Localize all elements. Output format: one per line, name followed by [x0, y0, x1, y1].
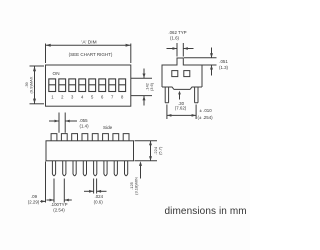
svg-text:1: 1 — [51, 95, 54, 100]
dimension .125 MIN arrow (pin length) — [139, 161, 142, 178]
dimension .100TYP extension lines (pin1 pin2) — [54, 179, 64, 203]
dimension .055 extension lines — [59, 113, 65, 133]
pin 4 — [83, 161, 86, 176]
actuator bump 7 — [113, 134, 119, 141]
pin 3 — [73, 161, 76, 176]
svg-text:.39(9.9)MAX: .39(9.9)MAX — [24, 76, 33, 93]
dimension .055 arrows — [49, 120, 77, 123]
switch position S3 — [69, 79, 76, 92]
end view hole left — [172, 71, 178, 77]
switch position S5 — [89, 79, 96, 92]
dimension .024 arrows — [84, 190, 107, 193]
svg-text:(2.54): (2.54) — [53, 207, 65, 212]
svg-text:5: 5 — [91, 95, 94, 100]
dimension A line — [46, 44, 131, 47]
svg-text:8: 8 — [121, 95, 124, 100]
pin 1 — [52, 161, 55, 176]
svg-text:.062 TYP: .062 TYP — [168, 30, 186, 35]
dimension .090 arrow — [40, 200, 45, 203]
svg-text:ON: ON — [53, 71, 60, 76]
svg-text:(0.6): (0.6) — [94, 200, 104, 205]
actuator bump 8 — [123, 134, 129, 141]
svg-text:3: 3 — [71, 95, 74, 100]
svg-text:4: 4 — [81, 95, 84, 100]
dimension .051 extension lines (tab height) — [184, 58, 217, 65]
dimension .062TYP extension lines (tab width) — [177, 43, 183, 57]
dimension .224 extension lines (body height) — [135, 141, 158, 161]
end view hole right — [184, 71, 190, 77]
svg-text:2: 2 — [61, 95, 64, 100]
svg-text:7: 7 — [111, 95, 114, 100]
svg-text:± .010: ± .010 — [200, 108, 213, 113]
end view center arrow — [178, 91, 181, 100]
actuator bump 5 — [92, 134, 98, 141]
pin 8 — [125, 161, 128, 176]
pin 6 — [104, 161, 107, 176]
right dimension .142 (3.6) extension lines — [131, 78, 152, 95]
switch position S2 — [59, 79, 66, 92]
dimension .090 extension line (body edge) — [45, 162, 47, 203]
svg-text:.055: .055 — [79, 118, 88, 123]
svg-text:.09: .09 — [31, 194, 38, 199]
actuator bump 2 — [61, 134, 67, 141]
dimension .224 line — [149, 141, 152, 161]
svg-text:(1.6): (1.6) — [170, 35, 180, 40]
left dimension line — [33, 66, 36, 104]
svg-text:(1.3): (1.3) — [219, 65, 229, 70]
pin 5 — [94, 161, 97, 176]
svg-text:(7.62): (7.62) — [175, 106, 187, 111]
svg-text:6: 6 — [101, 95, 104, 100]
svg-text:'A' DIM: 'A' DIM — [81, 39, 96, 45]
pin 2 — [63, 161, 66, 176]
svg-text:.125(3.18)MIN: .125(3.18)MIN — [129, 177, 138, 195]
svg-text:.024: .024 — [95, 194, 104, 199]
front view body outline — [46, 141, 134, 161]
actuator bump 3 — [72, 134, 78, 141]
svg-text:.100TYP: .100TYP — [50, 202, 67, 207]
svg-text:.142(3.6): .142(3.6) — [145, 82, 154, 91]
dimension .30 line — [167, 114, 196, 117]
actuator bump 6 — [103, 134, 109, 141]
svg-text:dimensions in mm: dimensions in mm — [165, 206, 247, 217]
dimension .062TYP arrows — [167, 47, 194, 50]
switch position S6 — [99, 79, 106, 92]
top view body outline — [46, 65, 131, 106]
dimension .024 extension lines (pin width) — [94, 179, 97, 194]
dimension .100TYP arrows — [47, 199, 72, 202]
switch numbers 1-8 — [51, 95, 124, 100]
svg-text:(± .254): (± .254) — [198, 115, 214, 120]
svg-text:(2.29): (2.29) — [28, 199, 40, 204]
svg-text:(SEE CHART RIGHT): (SEE CHART RIGHT) — [69, 52, 113, 57]
switch position S7 — [109, 79, 116, 92]
dimension A extension lines — [46, 44, 131, 64]
switch position S8 — [119, 79, 126, 92]
end view pin left — [165, 87, 168, 103]
switch position S1 — [49, 79, 56, 92]
actuator bump 4 — [82, 134, 88, 141]
svg-text:.224(5.7): .224(5.7) — [153, 146, 162, 155]
pin 7 — [114, 161, 117, 176]
svg-text:.051: .051 — [219, 59, 228, 64]
dimension .30 extension lines (pin row spacing) — [167, 105, 196, 120]
switch position S4 — [79, 79, 86, 92]
end view pin right — [195, 87, 198, 103]
dimension .051 arrows — [210, 48, 213, 76]
svg-text:(1.4): (1.4) — [80, 124, 90, 129]
right dimension arrows — [143, 69, 146, 106]
svg-text:Side: Side — [103, 125, 113, 130]
actuator bump 1 — [51, 134, 57, 141]
end view bottom edge with standoff — [162, 87, 202, 89]
end view body outline — [162, 58, 202, 87]
left dimension .39 (9.9)MAX extension lines — [30, 66, 45, 104]
